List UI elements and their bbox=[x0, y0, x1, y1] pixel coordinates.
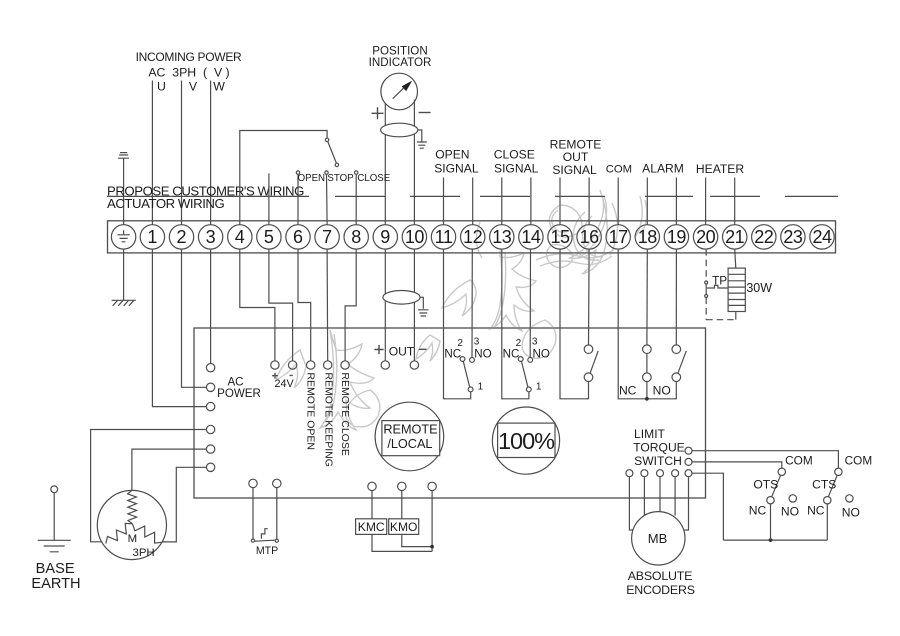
encoder MB bbox=[632, 512, 685, 565]
svg-text:3: 3 bbox=[206, 227, 216, 247]
svg-text:NC: NC bbox=[503, 348, 520, 361]
terminal PE bbox=[111, 225, 135, 249]
terminal 23 bbox=[781, 225, 805, 249]
open signal common contact 1 bbox=[468, 387, 473, 392]
contactor coil circles bbox=[368, 482, 376, 490]
wiring boundary line bbox=[107, 195, 838, 197]
terminal 11 bbox=[431, 225, 455, 249]
CTS NC contact bbox=[824, 497, 831, 504]
label minus meter bbox=[419, 112, 431, 114]
wire terminal 4 to 24v plus bbox=[240, 249, 275, 361]
selector switch common contact bbox=[325, 138, 328, 141]
wire close signal terminal 14 bbox=[530, 178, 532, 225]
wire meter to terminal 10 bbox=[413, 100, 415, 225]
svg-text:OPEN: OPEN bbox=[435, 148, 469, 162]
close signal blade bbox=[521, 361, 528, 388]
wire lts common to rail bbox=[692, 473, 723, 540]
OTS NC contact bbox=[767, 497, 774, 504]
dashed wire TP bottom bbox=[705, 298, 707, 320]
coil KMO bbox=[389, 519, 419, 535]
svg-text:ACTUATOR WIRING: ACTUATOR WIRING bbox=[107, 196, 224, 211]
svg-text:NO: NO bbox=[842, 505, 860, 519]
rail wire bbox=[723, 539, 827, 541]
wire motor phase 2 bbox=[132, 449, 207, 490]
alarm group: wire terminal 17 common bbox=[618, 249, 676, 399]
terminal 14 bbox=[519, 225, 543, 249]
terminal 10 bbox=[402, 225, 426, 249]
terminal 1 bbox=[140, 225, 164, 249]
wire encoder 1 bbox=[629, 477, 633, 530]
svg-text:EARTH: EARTH bbox=[31, 576, 80, 592]
wire terminal 8 to remote close bbox=[345, 249, 356, 361]
wire alarm terminal 18 bbox=[646, 178, 648, 225]
svg-text:CLOSE: CLOSE bbox=[494, 148, 535, 162]
svg-text:U: U bbox=[157, 79, 166, 93]
contact CLOSE bbox=[355, 171, 358, 174]
wire terminal 5 stub bbox=[268, 173, 270, 224]
svg-text:NO: NO bbox=[653, 384, 671, 398]
CTS NO contact bbox=[846, 495, 853, 502]
wire terminal 10 to out minus bbox=[413, 249, 415, 361]
wire remote out terminal 15 bbox=[559, 178, 561, 225]
svg-text:KMO: KMO bbox=[390, 520, 418, 534]
cable gland ellipse upper bbox=[381, 123, 418, 137]
svg-text:SIGNAL: SIGNAL bbox=[434, 161, 479, 175]
terminal 18 bbox=[635, 225, 659, 249]
svg-text:3: 3 bbox=[474, 337, 480, 348]
wire OPEN to terminal 6 bbox=[297, 174, 299, 224]
svg-text:REMOTE: REMOTE bbox=[383, 423, 437, 437]
svg-text:NO: NO bbox=[781, 504, 799, 518]
label plus meter bbox=[372, 107, 384, 119]
wire terminal 14 to NO bbox=[529, 249, 531, 358]
heater resistor 30W bbox=[728, 268, 745, 311]
wire encoder 3 bbox=[659, 477, 661, 512]
terminal 7 bbox=[315, 225, 339, 249]
junction KMO return bbox=[430, 545, 434, 549]
svg-text:20: 20 bbox=[696, 227, 716, 247]
wire terminal 2 to ac power bbox=[182, 249, 207, 387]
svg-text:OUT: OUT bbox=[563, 150, 589, 164]
terminal 21 bbox=[723, 225, 747, 249]
remote out contact: wire terminal 15 bbox=[560, 249, 589, 399]
motor supply circles bbox=[206, 425, 214, 433]
close signal NO contact 3 bbox=[528, 358, 533, 363]
wire terminal 5 to 24v minus bbox=[269, 249, 293, 361]
svg-text:24: 24 bbox=[812, 227, 832, 247]
CTS NC stem bbox=[826, 504, 828, 540]
wire terminal 21 to heater bbox=[735, 249, 736, 268]
wire close signal terminal 13 bbox=[501, 178, 503, 225]
svg-text:MB: MB bbox=[648, 531, 668, 546]
svg-text:SIGNAL: SIGNAL bbox=[552, 163, 597, 177]
selector REMOTE/LOCAL bbox=[375, 402, 444, 471]
svg-text:BASE: BASE bbox=[36, 561, 75, 577]
svg-text:ABSOLUTE: ABSOLUTE bbox=[628, 569, 693, 583]
limit torque switch circles bbox=[685, 447, 692, 454]
svg-text:OPEN: OPEN bbox=[298, 173, 325, 184]
remote out blade bbox=[590, 351, 598, 373]
label + OUT - bbox=[374, 345, 426, 354]
svg-text:2: 2 bbox=[176, 227, 186, 247]
wire heater terminal 21 bbox=[734, 178, 736, 225]
wire motor phase 3 bbox=[162, 467, 206, 542]
wire common coil return bbox=[431, 491, 433, 552]
ground at lower gland bbox=[418, 297, 428, 316]
wire KMO coil bbox=[402, 491, 432, 547]
svg-text:NO: NO bbox=[474, 347, 491, 360]
svg-text:AC 3PH ( V ): AC 3PH ( V ) bbox=[148, 65, 229, 79]
wire encoder 2 bbox=[643, 477, 645, 516]
open signal blade bbox=[463, 361, 470, 388]
CTS blade bbox=[828, 475, 837, 497]
coil KMC bbox=[356, 519, 387, 535]
wire terminal 3 to ac power bbox=[210, 249, 212, 363]
svg-text:13: 13 bbox=[492, 227, 512, 247]
alarm NC stem bbox=[646, 382, 648, 399]
alarm NO blade bbox=[678, 351, 686, 373]
ac power input circles bbox=[206, 364, 214, 372]
terminal 17 bbox=[606, 225, 630, 249]
svg-text:TORQUE: TORQUE bbox=[633, 440, 685, 454]
wire terminal 1 to ac power bbox=[152, 249, 206, 407]
svg-text:3: 3 bbox=[532, 337, 538, 348]
cable gland ellipse lower bbox=[383, 291, 420, 305]
out circles bbox=[381, 361, 389, 369]
svg-text:SIGNAL: SIGNAL bbox=[494, 161, 539, 175]
svg-text:CTS: CTS bbox=[812, 477, 836, 491]
svg-text:V: V bbox=[189, 79, 198, 93]
wire terminal 16 to upper contact bbox=[588, 249, 591, 345]
MTP wires bbox=[253, 488, 277, 539]
svg-text:TP: TP bbox=[712, 274, 727, 287]
svg-text:7: 7 bbox=[322, 227, 332, 247]
svg-text:18: 18 bbox=[638, 227, 658, 247]
svg-text:23: 23 bbox=[783, 227, 803, 247]
terminal 8 bbox=[344, 225, 368, 249]
ground at upper gland bbox=[417, 130, 427, 148]
OTS com contact bbox=[778, 468, 785, 475]
svg-text:W: W bbox=[213, 79, 225, 93]
alarm NC blade bbox=[646, 354, 648, 373]
wire open signal terminal 12 bbox=[472, 178, 474, 225]
OTS NO contact bbox=[789, 495, 796, 502]
svg-text:COM: COM bbox=[845, 454, 873, 468]
svg-text:OUT: OUT bbox=[389, 344, 415, 358]
ground hatched below PE terminal bbox=[112, 249, 136, 306]
svg-text:4: 4 bbox=[235, 227, 245, 247]
svg-text:14: 14 bbox=[521, 227, 541, 247]
terminal 16 bbox=[577, 225, 601, 249]
wire terminal 7 to remote keeping bbox=[326, 249, 329, 361]
thermal protector TP contacts bbox=[705, 281, 708, 284]
close signal common contact 1 bbox=[526, 387, 531, 392]
svg-text:MTP: MTP bbox=[256, 545, 278, 557]
wire heater bottom bbox=[735, 312, 737, 320]
MTP blade bbox=[255, 540, 276, 541]
svg-text:8: 8 bbox=[351, 227, 361, 247]
wire encoder 4 bbox=[674, 477, 676, 516]
motor M 3PH bbox=[97, 490, 166, 559]
OTS blade bbox=[772, 475, 781, 497]
svg-text:17: 17 bbox=[609, 227, 629, 247]
svg-text:11: 11 bbox=[435, 227, 453, 247]
alarm NC lower contact bbox=[643, 373, 652, 382]
wire open-stop-close feed from terminal 4 bbox=[240, 131, 327, 225]
svg-text:HEATER: HEATER bbox=[696, 162, 744, 176]
wire lts to CTS com bbox=[692, 451, 838, 468]
svg-text:6: 6 bbox=[293, 227, 303, 247]
terminal 19 bbox=[664, 225, 688, 249]
wire terminal 12 to NO bbox=[471, 249, 473, 358]
wire terminal 9 to out plus bbox=[384, 249, 386, 361]
wire open signal terminal 11 bbox=[443, 178, 445, 225]
encoder circles bbox=[626, 470, 633, 477]
open signal contact group: wire terminal 11 common bbox=[444, 249, 471, 399]
terminal 13 bbox=[490, 225, 514, 249]
wire U terminal 1 bbox=[151, 81, 153, 225]
terminal 2 bbox=[169, 225, 193, 249]
dashed wire bottom link bbox=[706, 319, 736, 321]
svg-text:30W: 30W bbox=[746, 281, 772, 295]
CTS com contact bbox=[835, 468, 842, 475]
terminal 9 bbox=[373, 225, 397, 249]
terminal strip bbox=[108, 221, 836, 253]
svg-text:INCOMING POWER: INCOMING POWER bbox=[136, 50, 242, 64]
base earth electrode bbox=[51, 486, 58, 493]
MTP terminals bbox=[249, 479, 257, 487]
contact STOP bbox=[325, 171, 328, 174]
svg-text:1: 1 bbox=[478, 382, 484, 393]
svg-text:2: 2 bbox=[516, 338, 522, 349]
alarm NC upper contact bbox=[643, 345, 652, 354]
svg-text:10: 10 bbox=[405, 227, 425, 247]
svg-text:COM: COM bbox=[785, 454, 813, 468]
svg-text:12: 12 bbox=[463, 227, 483, 247]
svg-text:22: 22 bbox=[754, 227, 774, 247]
contact OPEN bbox=[296, 171, 299, 174]
svg-text:CLOSE: CLOSE bbox=[357, 173, 390, 184]
svg-text:NC: NC bbox=[749, 503, 767, 517]
ground earth symbol above PE terminal bbox=[118, 153, 129, 225]
terminal 12 bbox=[461, 225, 485, 249]
terminal 5 bbox=[257, 225, 281, 249]
MTP thermal step bbox=[261, 529, 267, 539]
svg-text:OTS: OTS bbox=[753, 477, 778, 491]
svg-text:KMC: KMC bbox=[358, 520, 385, 534]
wire terminal 19 to alarm NO bbox=[675, 249, 677, 345]
wire meter to terminal 9 bbox=[384, 103, 386, 225]
indicator 100% bbox=[492, 407, 559, 474]
wire CLOSE to terminal 8 bbox=[355, 174, 357, 224]
svg-text:/LOCAL: /LOCAL bbox=[387, 437, 432, 451]
wire lts to OTS com bbox=[692, 462, 782, 468]
svg-text:5: 5 bbox=[264, 227, 274, 247]
open signal NO contact 3 bbox=[470, 358, 475, 363]
alarm NO lower contact bbox=[672, 373, 681, 382]
alarm NO upper contact bbox=[672, 345, 681, 354]
terminal 6 bbox=[286, 225, 310, 249]
svg-text:STOP: STOP bbox=[327, 173, 353, 184]
terminal 15 bbox=[548, 225, 572, 249]
main box bbox=[194, 328, 706, 498]
OTS NC stem bbox=[770, 504, 772, 540]
wire heater terminal 20 bbox=[705, 178, 707, 225]
remote out lower contact bbox=[584, 373, 593, 382]
svg-text:19: 19 bbox=[667, 227, 687, 247]
junction OTS on rail bbox=[769, 538, 773, 542]
heater circuit: dashed wire terminal 20 bbox=[705, 249, 707, 281]
svg-text:INDICATOR: INDICATOR bbox=[369, 56, 432, 69]
terminal 3 bbox=[198, 225, 222, 249]
close signal contact group: wire terminal 13 common bbox=[502, 249, 529, 399]
svg-text:NC: NC bbox=[807, 503, 825, 517]
terminal 22 bbox=[752, 225, 776, 249]
MTP contacts bbox=[251, 539, 254, 542]
svg-text:REMOTE CLOSE: REMOTE CLOSE bbox=[339, 372, 351, 455]
wire remote out terminal 16 bbox=[588, 178, 590, 225]
svg-text:ENCODERS: ENCODERS bbox=[626, 583, 695, 597]
open signal NC contact 2 bbox=[460, 357, 465, 362]
svg-text:LIMIT: LIMIT bbox=[634, 427, 666, 441]
wire motor phase 1 bbox=[91, 430, 207, 542]
label +24V bbox=[272, 373, 293, 379]
24v supply circles bbox=[271, 361, 279, 369]
svg-text:21: 21 bbox=[725, 227, 745, 247]
svg-text:NC: NC bbox=[444, 348, 461, 361]
TP actuator step bbox=[707, 285, 728, 288]
svg-text:3PH: 3PH bbox=[133, 547, 155, 559]
terminal 4 bbox=[228, 225, 252, 249]
svg-text:SWITCH: SWITCH bbox=[634, 454, 682, 468]
svg-text:ALARM: ALARM bbox=[642, 162, 684, 176]
remote out upper contact bbox=[584, 345, 593, 354]
svg-text:REMOTE OPEN: REMOTE OPEN bbox=[305, 372, 317, 450]
svg-text:100%: 100% bbox=[498, 428, 555, 454]
wire STOP to terminal 7 bbox=[326, 174, 329, 224]
watermark (decorative) bbox=[276, 190, 647, 430]
svg-text:NC: NC bbox=[619, 384, 637, 398]
svg-text:COM: COM bbox=[606, 164, 632, 176]
alarm junction bbox=[645, 397, 649, 401]
position indicator meter bbox=[381, 73, 418, 110]
remote command circles bbox=[307, 361, 315, 369]
svg-text:M: M bbox=[128, 533, 138, 545]
terminal 20 bbox=[693, 225, 717, 249]
wire W terminal 3 bbox=[210, 81, 212, 225]
wire terminal 18 to alarm NC bbox=[646, 249, 648, 345]
wire KMC coil bbox=[372, 491, 432, 552]
wire V terminal 2 bbox=[181, 81, 183, 225]
selector switch blade bbox=[328, 141, 337, 163]
TP blade bbox=[705, 284, 707, 295]
svg-text:1: 1 bbox=[147, 227, 157, 247]
svg-text:2: 2 bbox=[457, 338, 463, 349]
wire com terminal 17 bbox=[617, 178, 619, 225]
svg-text:1: 1 bbox=[536, 382, 542, 393]
terminal 24 bbox=[810, 225, 834, 249]
wire terminal 6 to remote open bbox=[298, 249, 311, 361]
wire encoder 5 bbox=[684, 477, 689, 530]
svg-text:9: 9 bbox=[380, 227, 390, 247]
svg-text:POWER: POWER bbox=[217, 387, 261, 400]
close signal NC contact 2 bbox=[518, 357, 523, 362]
wire alarm terminal 19 bbox=[675, 178, 677, 225]
